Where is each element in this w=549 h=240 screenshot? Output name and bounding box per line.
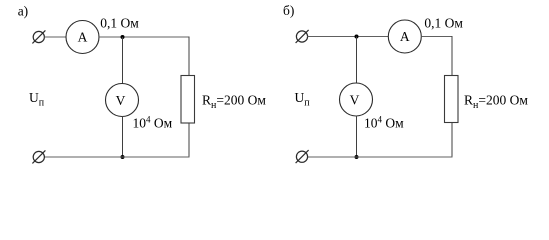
wire voltmeter to bottom junction circuit a bbox=[122, 116, 124, 157]
wire junction to voltmeter circuit a bbox=[122, 37, 124, 84]
svg-text:а): а) bbox=[18, 3, 29, 18]
wire junction to voltmeter circuit b bbox=[356, 37, 358, 84]
svg-text:Rн=200 Ом: Rн=200 Ом bbox=[202, 93, 266, 112]
svg-text:0,1 Ом: 0,1 Ом bbox=[424, 16, 463, 31]
terminal top-left circuit b bbox=[296, 30, 309, 43]
bottom wire circuit b bbox=[307, 156, 452, 158]
voltmeter V circuit b bbox=[340, 83, 373, 116]
terminal top-left circuit a bbox=[32, 30, 45, 43]
junction node bottom circuit a bbox=[121, 155, 125, 159]
terminal bottom-left circuit b bbox=[296, 150, 309, 163]
wire voltmeter to bottom junction circuit b bbox=[356, 116, 358, 158]
wire ammeter to right corner circuit a bbox=[99, 36, 190, 38]
bottom wire circuit a bbox=[44, 156, 189, 158]
svg-text:V: V bbox=[350, 93, 360, 108]
wire ammeter to right corner circuit b bbox=[421, 36, 452, 38]
svg-text:0,1 Ом: 0,1 Ом bbox=[100, 16, 139, 31]
wire resistor to bottom right corner circuit a bbox=[188, 123, 190, 158]
svg-text:104 Ом: 104 Ом bbox=[364, 115, 404, 131]
ammeter A circuit a bbox=[66, 21, 99, 54]
svg-text:104 Ом: 104 Ом bbox=[133, 115, 173, 131]
wire right corner down to resistor circuit b bbox=[451, 36, 453, 76]
svg-text:Rн=200 Ом: Rн=200 Ом bbox=[464, 93, 528, 112]
voltmeter V circuit a bbox=[106, 84, 139, 117]
svg-text:б): б) bbox=[283, 3, 294, 18]
svg-text:А: А bbox=[78, 30, 88, 45]
junction node top circuit b bbox=[355, 35, 359, 39]
wire terminal to ammeter circuit b bbox=[307, 36, 388, 38]
wire terminal to ammeter A1 bbox=[44, 36, 66, 38]
svg-text:Uп: Uп bbox=[29, 90, 45, 109]
svg-text:А: А bbox=[400, 29, 410, 44]
svg-text:V: V bbox=[116, 93, 126, 108]
resistor Rн circuit b bbox=[445, 76, 459, 123]
junction node bottom circuit b bbox=[355, 155, 359, 159]
ammeter A circuit b bbox=[388, 20, 421, 53]
terminal bottom-left circuit a bbox=[32, 150, 45, 163]
svg-text:Uп: Uп bbox=[295, 90, 311, 109]
wire resistor to bottom right corner circuit b bbox=[451, 123, 453, 158]
wire right corner down to resistor circuit a bbox=[188, 37, 190, 76]
junction node top circuit a bbox=[121, 35, 125, 39]
resistor Rн circuit a bbox=[181, 76, 195, 124]
